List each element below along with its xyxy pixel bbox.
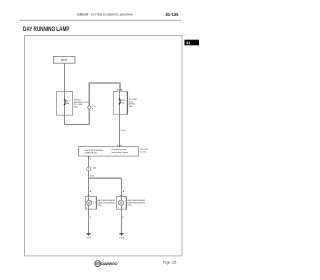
ground G103 [119, 233, 124, 235]
connector C206 diamond [88, 105, 92, 110]
wire module to junction node [88, 156, 90, 178]
svg-text:BATT: BATT [61, 59, 68, 62]
pin 1 mark at module top [119, 145, 121, 146]
wire fuse box 1 to node [65, 115, 90, 124]
svg-text:C2 0 3 1: C2 0 3 1 [139, 152, 146, 154]
right lamp bulb [121, 197, 123, 210]
svg-text:21W: 21W [128, 205, 132, 207]
battery box [54, 57, 76, 64]
svg-text:2: 2 [117, 145, 118, 147]
pin 1 mark at fuse box 2 top [119, 90, 121, 91]
right pin A label [120, 195, 122, 196]
svg-text:DAEWOO: DAEWOO [101, 262, 117, 266]
wire battery to fuse box 1 [64, 63, 66, 91]
left ground wire [88, 209, 90, 233]
junction branch wire [89, 177, 122, 179]
right lamp label [128, 199, 146, 207]
left daytime running lamp box [86, 197, 97, 210]
fuse box 1 (engine fuse box) [57, 92, 73, 116]
fuse box 2 (I/P fuse box) [114, 90, 128, 115]
svg-text:0.5G: 0.5G [121, 130, 126, 132]
inline connector C204 [87, 167, 91, 171]
ground G102 [86, 233, 91, 235]
fuse box 1 side label [74, 99, 90, 108]
svg-text:LAMP RELAY: LAMP RELAY [85, 152, 98, 155]
left lamp bulb [88, 197, 90, 210]
svg-text:1: 1 [121, 145, 122, 147]
header rule [20, 19, 181, 22]
svg-text:0.5B: 0.5B [90, 175, 95, 177]
svg-text:DAY RUNNING LAMP: DAY RUNNING LAMP [23, 26, 70, 33]
svg-text:81: 81 [186, 41, 190, 45]
fuse box 2 thick right edge [126, 92, 128, 115]
svg-text:Daytime running: Daytime running [112, 148, 127, 151]
svg-text:Page 135: Page 135 [163, 261, 177, 265]
black section tab 81 [185, 40, 200, 46]
right daytime running lamp box [117, 197, 127, 210]
svg-text:DAYTIME RUNNING: DAYTIME RUNNING [85, 149, 104, 152]
footer logo emblem [95, 261, 101, 267]
thick feed wire up and over to fuse box 2 [89, 83, 120, 125]
svg-text:1: 1 [121, 90, 122, 92]
wire through fuse box 2 [119, 91, 121, 114]
daytime running lamp module box [79, 147, 139, 157]
wire through fuse box 1 [64, 92, 66, 116]
diagram border frame [25, 36, 183, 256]
left pin A label [88, 195, 90, 196]
left lamp feed wire [88, 178, 90, 196]
fuse F1.1 symbol [64, 99, 66, 105]
fuse EF16 symbol [119, 98, 121, 104]
right ground wire [121, 209, 123, 233]
right lamp feed wire [121, 178, 123, 196]
wire fuse box 2 to module [119, 115, 121, 147]
pin 8 mark below module [88, 156, 90, 157]
module side label [139, 149, 148, 153]
left lamp label [97, 199, 115, 207]
fuse box 2 side label [129, 99, 138, 108]
svg-text:RED: RED [74, 106, 79, 108]
svg-text:lamp power supply: lamp power supply [112, 152, 129, 154]
svg-text:21W: 21W [97, 205, 101, 207]
svg-text:81-135: 81-135 [165, 12, 179, 17]
svg-text:CIRCUIT - SYSTEM SCHEMATIC DIA: CIRCUIT - SYSTEM SCHEMATIC DIAGRAM [77, 13, 133, 17]
